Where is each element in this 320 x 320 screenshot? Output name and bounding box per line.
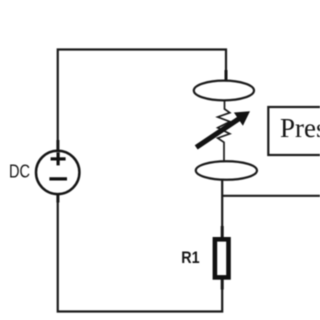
svg-text:DC: DC — [9, 162, 30, 182]
svg-text:Pressure sensor: Pressure sensor — [280, 113, 320, 143]
svg-text:R1: R1 — [181, 249, 199, 267]
